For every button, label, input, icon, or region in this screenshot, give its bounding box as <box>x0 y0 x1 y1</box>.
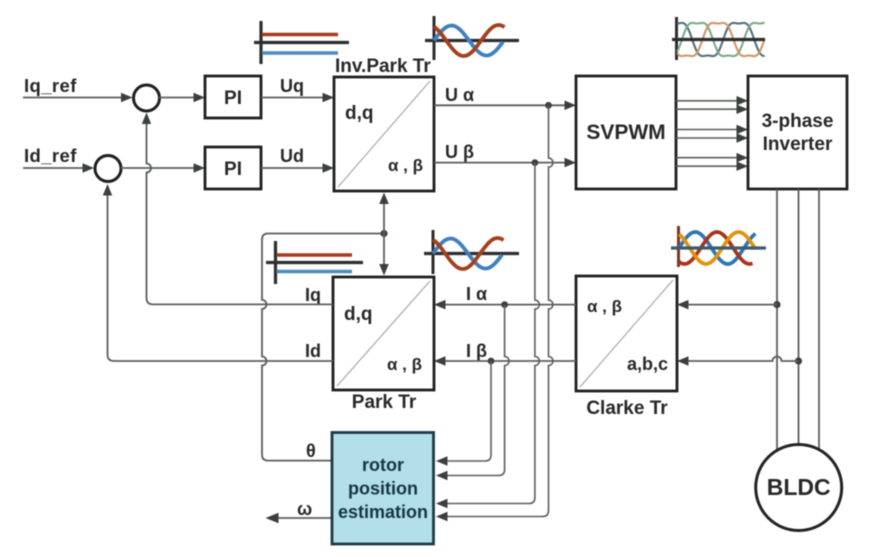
svg-text:Uq: Uq <box>280 76 304 96</box>
svg-text:Clarke Tr: Clarke Tr <box>586 398 668 419</box>
junction phase b current tap <box>795 357 802 364</box>
block Park Tr <box>333 277 434 390</box>
summing junction S2 (d axis) <box>95 156 121 182</box>
svg-text:rotor: rotor <box>362 455 404 475</box>
svg-text:ω: ω <box>297 499 312 519</box>
PI controller block (d axis) <box>205 147 261 189</box>
svg-text:Inverter: Inverter <box>763 134 833 155</box>
scope step-response (q,d currents) top-left <box>254 21 349 64</box>
wire U beta tap to rotor position estimation (hops over I alpha, I beta) <box>445 163 539 504</box>
wire PWM gate signal 4 SVPWM to inverter <box>676 137 739 139</box>
svg-text:α , β: α , β <box>387 355 422 374</box>
svg-text:Park Tr: Park Tr <box>352 392 417 413</box>
wire I alpha Clarke to Park Tr <box>443 304 576 306</box>
wire U beta to SVPWM <box>434 162 567 164</box>
block 3-phase Inverter <box>748 76 847 189</box>
svg-text:Iq: Iq <box>305 285 321 305</box>
svg-text:Ud: Ud <box>280 146 304 166</box>
junction phase a current tap <box>773 301 780 308</box>
svg-text:Id_ref: Id_ref <box>24 145 77 166</box>
svg-text:Iq_ref: Iq_ref <box>24 75 77 96</box>
wire PI q to Inv.Park Tr <box>261 97 325 99</box>
block Clarke Tr <box>576 276 677 391</box>
wire Iq feedback Park Tr to summing junction S1 <box>147 122 334 304</box>
scope sine waves (I alpha/beta) above Park Tr right <box>424 230 519 274</box>
svg-text:SVPWM: SVPWM <box>586 121 665 144</box>
block rotor position estimation <box>332 433 434 545</box>
scope 3-phase currents above Clarke Tr <box>671 226 766 267</box>
svg-text:BLDC: BLDC <box>767 474 831 500</box>
wire phase b tap to Clarke Tr (hop over phase a line) <box>686 357 799 362</box>
junction theta to park transforms <box>380 230 387 237</box>
wire PWM gate signal 6 SVPWM to inverter <box>676 165 739 167</box>
svg-text:I β: I β <box>466 341 487 361</box>
scope step-response above Park Tr <box>266 241 363 284</box>
junction I alpha tap <box>501 301 508 308</box>
svg-text:PI: PI <box>224 159 242 180</box>
wire U alpha tap to rotor position estimation (hops over U beta, I alpha, I beta) <box>445 105 553 516</box>
svg-text:Inv.Park Tr: Inv.Park Tr <box>335 56 431 77</box>
junction U alpha tap <box>545 102 552 109</box>
wire inverter phase a to BLDC <box>776 189 778 450</box>
PI controller block (q axis) <box>205 76 261 118</box>
svg-text:U α: U α <box>445 85 474 105</box>
svg-text:3-phase: 3-phase <box>762 111 834 132</box>
wire PI d to Inv.Park Tr <box>261 167 325 169</box>
wire theta from rotor position estimation to transforms <box>262 455 332 461</box>
junction I beta tap <box>488 358 495 365</box>
svg-text:position: position <box>348 479 418 499</box>
scope sine waves (U alpha/beta) above Inv.Park Tr <box>425 16 519 60</box>
svg-text:θ: θ <box>306 441 316 461</box>
svg-text:I α: I α <box>466 284 487 304</box>
wire Id feedback Park Tr to summing junction S2 <box>108 192 334 361</box>
wire phase a tap to Clarke Tr <box>686 304 777 306</box>
wire I beta tap to rotor position estimation <box>445 361 491 461</box>
summing junction S1 (q axis) <box>134 85 160 111</box>
wire inverter phase b to BLDC <box>798 189 800 445</box>
scope 3-phase modulation waveforms above SVPWM <box>672 17 765 60</box>
svg-text:α , β: α , β <box>587 297 622 316</box>
wire inverter phase c to BLDC <box>818 189 820 449</box>
wire PWM gate signal 2 SVPWM to inverter <box>676 108 739 110</box>
wire PWM gate signal 1 SVPWM to inverter <box>676 100 739 102</box>
svg-text:a,b,c: a,b,c <box>627 354 668 374</box>
svg-text:estimation: estimation <box>338 502 428 522</box>
block SVPWM <box>576 76 676 189</box>
wire I alpha tap to rotor position estimation (hop over I beta) <box>445 305 509 476</box>
wire theta double arrow between Inv.Park Tr and Park Tr <box>383 196 385 272</box>
motor BLDC <box>756 445 842 531</box>
wire summing junction S1 to PI q <box>159 97 196 99</box>
svg-text:PI: PI <box>224 88 242 109</box>
wire summing junction S2 to PI d <box>121 167 197 169</box>
wire omega output arrow <box>276 517 332 519</box>
wire Iq_ref into summing junction <box>23 97 124 99</box>
svg-text:Id: Id <box>305 341 321 361</box>
svg-text:d,q: d,q <box>345 103 374 124</box>
svg-text:U β: U β <box>445 142 474 162</box>
wire Id_ref into summing junction <box>23 167 86 169</box>
block Inv.Park Tr <box>334 77 434 191</box>
wire I beta Clarke to Park Tr <box>443 360 576 362</box>
svg-text:d,q: d,q <box>344 304 373 325</box>
wire U alpha to SVPWM <box>434 104 567 106</box>
svg-text:α , β: α , β <box>388 156 423 175</box>
wire PWM gate signal 5 SVPWM to inverter <box>676 157 739 159</box>
wire PWM gate signal 3 SVPWM to inverter <box>676 129 739 131</box>
junction U beta tap <box>532 159 539 166</box>
